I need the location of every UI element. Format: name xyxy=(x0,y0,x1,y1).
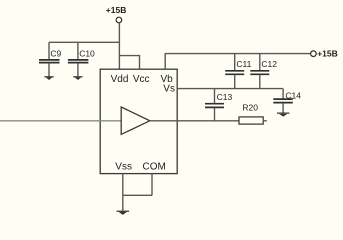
svg-text:Vss: Vss xyxy=(115,161,132,172)
capacitor C9 xyxy=(39,42,62,76)
svg-text:C10: C10 xyxy=(79,49,95,59)
svg-text:C12: C12 xyxy=(261,59,277,69)
wire Vss-COM connector xyxy=(123,194,152,196)
op-amp U1 (IC box) xyxy=(100,69,177,173)
svg-text:Vcc: Vcc xyxy=(133,74,150,85)
terminal circle top xyxy=(116,17,122,23)
capacitor C12 xyxy=(250,54,277,89)
svg-text:Vdd: Vdd xyxy=(111,74,129,85)
svg-text:Vs: Vs xyxy=(163,83,175,94)
svg-text:C14: C14 xyxy=(285,91,301,101)
wire Vcc step xyxy=(119,56,139,70)
capacitor C13 xyxy=(205,89,232,121)
amplifier triangle xyxy=(121,107,150,134)
resistor R20 xyxy=(239,102,267,124)
wire Vdd vertical from terminal to IC xyxy=(118,23,120,69)
svg-text:+15B: +15B xyxy=(317,48,338,58)
wire Vs rail xyxy=(177,88,283,90)
svg-text:C11: C11 xyxy=(236,59,251,69)
wire input (left) xyxy=(0,120,121,122)
ground (Vss) xyxy=(117,211,130,215)
wire Vb rail to right terminal xyxy=(165,54,310,70)
wire COM down xyxy=(151,174,153,196)
svg-text:R20: R20 xyxy=(242,102,258,112)
wire output xyxy=(150,120,239,122)
terminal circle right xyxy=(311,51,317,57)
capacitor C11 xyxy=(225,54,251,89)
wire capacitor bus xyxy=(49,41,119,43)
wire Vss down xyxy=(122,174,124,211)
svg-text:COM: COM xyxy=(143,161,166,172)
svg-text:C9: C9 xyxy=(50,49,61,59)
ground (C14) xyxy=(277,113,289,117)
capacitor C10 xyxy=(68,42,95,76)
svg-text:C13: C13 xyxy=(217,92,233,102)
ground (C9) xyxy=(44,77,53,80)
ground (C10) xyxy=(73,77,82,80)
svg-text:+15B: +15B xyxy=(106,5,127,15)
capacitor C14 xyxy=(273,89,301,113)
